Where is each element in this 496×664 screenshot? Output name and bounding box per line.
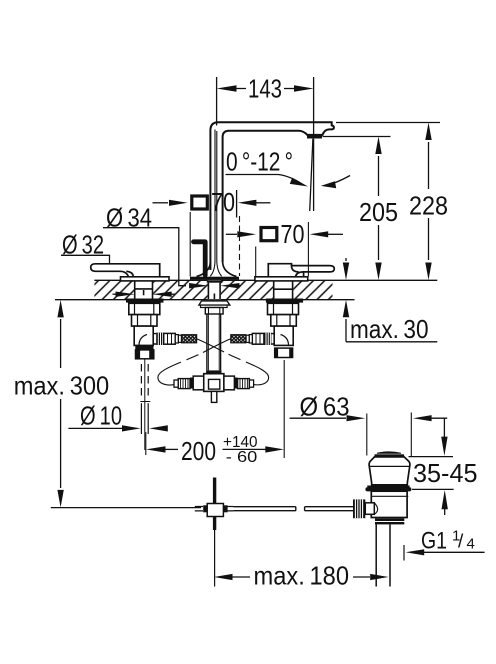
svg-text:200: 200 [181, 436, 216, 466]
svg-text:228: 228 [409, 190, 448, 220]
center faucet base plinth [197, 262, 237, 277]
svg-text:70: 70 [211, 187, 235, 217]
centre supply tube [207, 314, 221, 370]
left handle locknut [129, 303, 160, 314]
drain downpipe [376, 524, 390, 586]
svg-text:max. 180: max. 180 [254, 561, 350, 591]
leader underline + swing arc [226, 175, 304, 186]
pop-up lever vertical rod [213, 478, 216, 531]
centre nut [205, 308, 223, 315]
svg-text:Ø 10: Ø 10 [80, 401, 122, 431]
spout inner silhouette lines [210, 130, 221, 277]
dimension max.180 [232, 576, 250, 578]
dimension 200 +140/-60 [145, 432, 147, 455]
left handle elbow body [134, 326, 153, 345]
svg-text:35-45: 35-45 [413, 458, 478, 488]
deck bottom line [55, 299, 355, 301]
horizontal lever rod to drain (with break) [233, 507, 295, 511]
left handle lever [91, 264, 160, 277]
centre sub-seal under plinth [207, 281, 222, 283]
left elbow outlet collar [153, 334, 156, 344]
tee threaded cones [174, 379, 190, 389]
left elbow bottom nut [136, 350, 154, 359]
svg-text:4: 4 [467, 536, 475, 553]
right knurled nut [264, 333, 272, 345]
svg-text:143: 143 [248, 74, 282, 104]
drain lower body [371, 491, 407, 517]
drain pop-up waste: plug cap [377, 451, 401, 453]
right handle escutcheon [255, 277, 308, 281]
left handle hex [132, 315, 158, 327]
svg-text:- 60: - 60 [226, 449, 258, 466]
centre tube collar [206, 370, 221, 373]
right hose braid [231, 335, 246, 343]
dimension 35-45 [409, 456, 454, 458]
deck hole shank edges: left handle [135, 281, 293, 299]
dimension max.30 (deck thickness) [346, 258, 437, 342]
right hose hex [252, 333, 264, 344]
dimension 228 (spout top height above deck) [336, 123, 440, 261]
pop-up lever pivot block [195, 507, 234, 511]
tee bottom stub [211, 391, 216, 402]
phantom hose curve from left hose end [197, 339, 224, 352]
left elbow seal band [135, 346, 153, 350]
svg-text:max. 300: max. 300 [14, 370, 110, 400]
deck hole white cutouts [134, 281, 293, 300]
svg-text:70: 70 [281, 219, 305, 249]
right elbow outlet collar [271, 334, 274, 344]
right elbow bottom nut [275, 348, 293, 357]
dimension max.300 [51, 319, 201, 508]
left hose rings [175, 335, 178, 343]
center joystick lever [194, 242, 206, 275]
tee side nuts [193, 376, 204, 390]
svg-text:Ø 63: Ø 63 [300, 392, 350, 422]
left handle escutcheon [121, 277, 170, 281]
drain flange seal (black) [367, 486, 409, 488]
stream line tilted [310, 139, 313, 211]
pull rod Ø10 (hidden, dashed) [144, 359, 146, 450]
left hose braid [182, 335, 197, 343]
svg-text:0 °-12 °: 0 °-12 ° [226, 147, 293, 177]
spout outline [210, 122, 334, 270]
Ø32 arrows at deck hole [113, 293, 117, 295]
right handle below-deck: seal [266, 299, 303, 303]
dimension square 70 (first, centre body) [153, 202, 169, 204]
centre tee block [204, 374, 224, 392]
left handle below-deck: seal [126, 299, 164, 303]
right handle lever [268, 264, 334, 277]
deck hatching [94, 281, 332, 299]
hidden dashed edge of centre base [239, 216, 241, 276]
drain bottom rings [375, 518, 404, 521]
right handle locknut [268, 303, 299, 314]
dimension 205 (aerator height above deck) [323, 137, 391, 261]
stream line vertical [313, 139, 315, 211]
left knurled nut [156, 333, 164, 345]
dimension square 70 (second, right handle) [226, 233, 237, 235]
centre below-deck: washers [199, 301, 230, 305]
phantom hose curve from right hose end [203, 339, 231, 353]
right hose rings [249, 335, 252, 343]
drain side knob (knurled) [353, 499, 365, 518]
left hose hex [164, 333, 176, 344]
svg-text:205: 205 [359, 197, 398, 227]
svg-text:max. 30: max. 30 [350, 314, 429, 344]
dimension 143 (spout reach) [217, 77, 314, 138]
deck top line [94, 279, 437, 281]
right handle hex [271, 315, 297, 327]
svg-text:G1: G1 [421, 527, 447, 554]
svg-text:/: / [458, 532, 464, 553]
drain upper body (trumpet) [369, 457, 410, 485]
right handle elbow body [274, 326, 293, 345]
aerator (dark) [307, 134, 322, 138]
